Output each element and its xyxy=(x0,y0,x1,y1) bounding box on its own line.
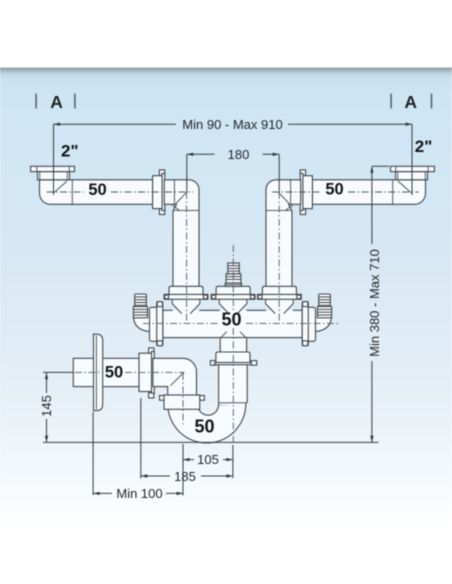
svg-text:A: A xyxy=(404,92,417,112)
svg-text:145: 145 xyxy=(39,395,54,417)
svg-text:50: 50 xyxy=(194,417,214,437)
svg-text:50: 50 xyxy=(88,181,106,199)
svg-text:A: A xyxy=(50,92,63,112)
svg-text:105: 105 xyxy=(197,452,219,467)
svg-text:185: 185 xyxy=(174,469,196,484)
svg-text:50: 50 xyxy=(325,181,343,199)
svg-text:180: 180 xyxy=(228,147,250,162)
svg-text:2": 2" xyxy=(61,141,79,160)
svg-text:2": 2" xyxy=(415,137,433,156)
svg-text:Min 90 - Max 910: Min 90 - Max 910 xyxy=(182,117,282,132)
svg-text:Min 100: Min 100 xyxy=(116,486,162,501)
svg-text:Min 380 - Max 710: Min 380 - Max 710 xyxy=(367,249,382,357)
svg-text:50: 50 xyxy=(105,364,123,382)
svg-text:50: 50 xyxy=(221,309,241,329)
